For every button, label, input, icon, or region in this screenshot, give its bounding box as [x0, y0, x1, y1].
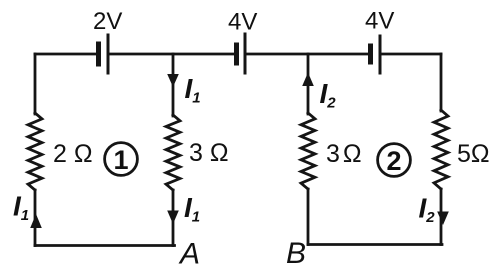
- svg-text:2: 2: [386, 146, 401, 176]
- svg-text:3 Ω: 3 Ω: [189, 139, 229, 167]
- resistor R4 5ohm zigzag: [434, 110, 448, 189]
- svg-text:B: B: [286, 237, 306, 267]
- current arrow I1 down (top of middle-left branch): [167, 74, 179, 87]
- wire top between 2V and 4V: [110, 53, 235, 56]
- wire middle-right vertical upper: [307, 54, 310, 114]
- svg-text:1: 1: [113, 145, 128, 175]
- wire top-left horizontal: [35, 53, 96, 56]
- current arrow I2 down (bottom of right branch): [437, 212, 449, 226]
- svg-text:I1: I1: [185, 73, 201, 107]
- svg-text:I1: I1: [184, 192, 200, 226]
- svg-text:A: A: [178, 238, 200, 267]
- current arrow I1 up (bottom of left branch): [30, 214, 42, 228]
- svg-text:4V: 4V: [228, 9, 257, 36]
- resistor R3 3ohm zigzag: [301, 113, 315, 189]
- current arrow I1 down (bottom of middle-left branch): [167, 211, 179, 225]
- loop marker circle 1: [105, 143, 138, 176]
- wire top-right horizontal: [382, 53, 442, 56]
- wire middle-left vertical lower: [172, 190, 175, 246]
- wire right vertical upper: [440, 54, 443, 111]
- svg-text:2 Ω: 2 Ω: [53, 140, 93, 168]
- battery 4V right plates: [371, 36, 381, 73]
- resistor R2 3ohm zigzag: [166, 115, 180, 190]
- svg-text:3 Ω: 3 Ω: [326, 140, 361, 168]
- wire middle-right vertical lower: [307, 189, 310, 245]
- wire bottom-left horizontal: [35, 244, 175, 247]
- wire left vertical lower: [34, 190, 37, 246]
- svg-text:2V: 2V: [93, 8, 122, 35]
- current arrow I2 up (top of middle-right branch): [302, 73, 314, 87]
- resistor R1 2ohm zigzag: [28, 113, 42, 190]
- wire right vertical lower: [440, 189, 443, 245]
- svg-text:5Ω: 5Ω: [457, 140, 490, 168]
- wire middle-left vertical upper: [172, 54, 175, 116]
- battery 2V plates: [99, 35, 109, 73]
- battery 4V middle plates: [237, 34, 246, 73]
- svg-text:I2: I2: [419, 193, 436, 227]
- loop marker circle 2: [378, 144, 411, 177]
- svg-text:I1: I1: [13, 191, 29, 225]
- wire top between middle 4V and right 4V: [247, 53, 369, 56]
- svg-text:I2: I2: [320, 78, 337, 112]
- wire bottom-right horizontal: [308, 243, 442, 246]
- svg-text:4V: 4V: [365, 8, 394, 35]
- wire left vertical upper: [34, 54, 37, 114]
